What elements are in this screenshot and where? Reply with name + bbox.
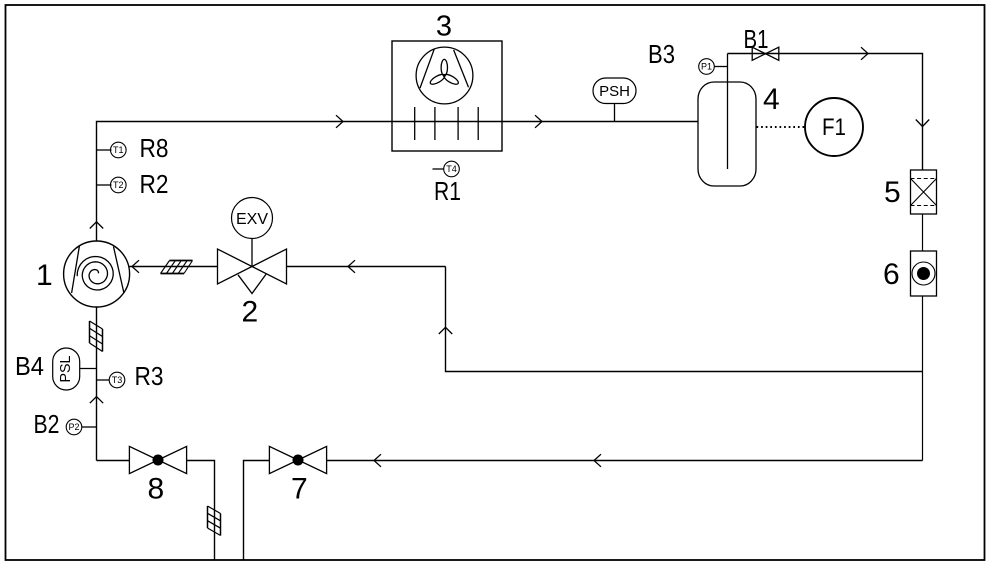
wire: valve 8 to evaporator drop: [187, 461, 215, 561]
svg-text:5: 5: [884, 176, 901, 209]
arrow right on top header (left of condenser): [336, 115, 343, 128]
vibration absorber on suction line: [161, 261, 193, 274]
svg-text:R3: R3: [135, 361, 164, 391]
sensor T2 circle: [111, 177, 127, 193]
compressor internal right chord: [114, 247, 124, 293]
receiver dip tube: [727, 54, 729, 170]
condenser box 3: [392, 41, 502, 151]
svg-text:4: 4: [763, 83, 780, 116]
wire: compressor suction drop: [96, 307, 98, 461]
svg-text:F1: F1: [822, 114, 846, 141]
svg-text:6: 6: [883, 258, 900, 291]
sight glass 6 body: [911, 251, 937, 296]
flow switch F1 circle: [805, 98, 863, 156]
svg-text:1: 1: [36, 259, 53, 292]
vibration absorber below compressor: [90, 321, 103, 352]
wire: receiver top to right drop: [728, 54, 923, 171]
arrow up on mid riser: [439, 327, 452, 334]
svg-text:B3: B3: [648, 39, 675, 69]
sensor P1 stem: [714, 66, 728, 68]
valve B1 left triangle: [752, 47, 765, 60]
sight glass dot: [917, 267, 930, 280]
wire: expansion valve to compressor suction: [130, 266, 218, 268]
fan circle: [416, 47, 473, 104]
EXV actuator circle: [232, 198, 273, 239]
expansion valve 2 left triangle: [218, 249, 253, 284]
svg-text:T4: T4: [446, 164, 457, 174]
valve 7 ball: [293, 455, 304, 466]
receiver vessel 4: [698, 82, 756, 186]
filter drier dashed bottom: [911, 205, 937, 207]
sensor T4 stem: [433, 168, 445, 170]
svg-text:B1: B1: [744, 24, 769, 54]
svg-text:T2: T2: [113, 180, 124, 190]
svg-text:R8: R8: [140, 133, 169, 163]
svg-text:B2: B2: [34, 409, 60, 439]
wire: suction elbow to valve 8: [97, 460, 130, 462]
svg-text:2: 2: [242, 296, 259, 329]
compressor internal left chord: [72, 246, 80, 294]
arrow right on top header (right of condenser): [535, 115, 542, 128]
sensor T2 stem: [97, 184, 112, 186]
svg-text:EXV: EXV: [236, 211, 268, 228]
svg-text:7: 7: [291, 473, 308, 506]
svg-text:R2: R2: [140, 169, 169, 199]
pressure switch PSL oval: [53, 348, 80, 390]
sensor P1 circle: [699, 59, 715, 75]
valve 7 left triangle: [269, 446, 298, 473]
EXV actuator stem: [251, 239, 253, 267]
arrow left on liquid line: [348, 260, 355, 273]
filter drier cross: [911, 179, 937, 206]
compressor scroll spiral: [77, 257, 113, 291]
sensor T3 circle: [109, 372, 125, 388]
fan blade top: [441, 59, 447, 75]
wire: filter to sight glass: [922, 214, 924, 251]
svg-text:T1: T1: [113, 145, 124, 155]
sensor T4 circle: [444, 161, 460, 177]
compressor U1 "1": scroll circle: [64, 241, 130, 307]
vibration absorber on evaporator drop: [208, 506, 221, 536]
valve B1 right triangle: [766, 47, 779, 60]
expansion valve 2 right triangle: [252, 249, 287, 284]
wire: sight glass down right side: [922, 296, 924, 461]
arrow up on suction drop: [90, 397, 103, 404]
valve 8 right triangle: [158, 446, 187, 473]
wire: bottom return line: [327, 460, 923, 462]
wire: compressor discharge riser and top header to condenser and receiver: [97, 122, 699, 242]
pressure switch PSH stem: [614, 104, 616, 122]
svg-text:8: 8: [148, 473, 165, 506]
arrow right on top right pipe: [861, 47, 868, 60]
coil tick 3: [457, 107, 459, 140]
sight glass ring: [912, 262, 935, 285]
arrow down on right drop: [916, 120, 929, 127]
valve 8 ball: [153, 455, 164, 466]
svg-text:P2: P2: [68, 422, 79, 432]
arrow up on discharge riser above compressor: [90, 222, 103, 229]
sensor T1 circle: [111, 142, 127, 158]
valve 8 left triangle: [129, 446, 158, 473]
filter drier dashed top: [911, 178, 937, 180]
wire: second evaporator drop to valve 7: [244, 461, 270, 561]
fan blade lower-left: [442, 72, 459, 86]
flow switch F1 dotted link: [757, 126, 806, 128]
PSL stem: [80, 368, 97, 370]
valve 7 right triangle: [298, 446, 327, 473]
svg-text:P1: P1: [701, 62, 712, 72]
filter drier 5 body: [911, 170, 937, 214]
fan left chord: [420, 49, 434, 88]
coil tick 2: [434, 107, 436, 140]
fan right chord: [454, 50, 469, 87]
sensor P2 circle: [66, 419, 82, 435]
svg-text:B4: B4: [15, 351, 44, 381]
sensor T1 stem: [97, 149, 112, 151]
svg-text:T3: T3: [112, 375, 123, 385]
expansion valve 2 bottom triangle: [238, 274, 266, 293]
wire: liquid return mid pipe: [446, 267, 923, 372]
arrow left on bottom return: [594, 454, 601, 467]
svg-text:3: 3: [436, 11, 452, 43]
svg-text:PSL: PSL: [57, 356, 74, 383]
arrow left on bottom return (near valve 7): [374, 454, 381, 467]
arrow left at compressor inlet: [132, 260, 139, 273]
fan blade lower-right: [429, 72, 446, 86]
pressure switch PSH oval: [593, 78, 636, 104]
coil tick 1: [414, 107, 416, 140]
sensor P2 stem: [82, 426, 97, 428]
sensor T3 stem: [97, 379, 110, 381]
wire: liquid line into expansion valve: [287, 266, 446, 268]
coil tick 4: [477, 107, 479, 140]
svg-text:R1: R1: [434, 176, 461, 206]
svg-text:PSH: PSH: [599, 83, 630, 100]
